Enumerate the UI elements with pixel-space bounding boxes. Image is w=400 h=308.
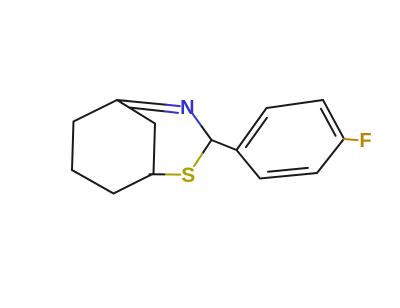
inner line B5-B6 [268,168,308,172]
inner line B1-B2 [246,118,267,147]
C=N inner line [129,108,165,112]
phenyl ring [237,100,345,179]
inner line B3-B4 [321,109,336,136]
C=N double bond main line [117,100,167,105]
svg-text:N: N [180,97,194,119]
cyclohexane ring [72,100,155,194]
svg-text:F: F [359,130,371,152]
S-CH3 stub [164,173,180,175]
F bond [344,139,358,140]
svg-text:S: S [181,164,195,187]
C2-phenyl bond [212,140,237,150]
C2-S bond [202,140,211,154]
N-C2 bond [193,114,202,126]
